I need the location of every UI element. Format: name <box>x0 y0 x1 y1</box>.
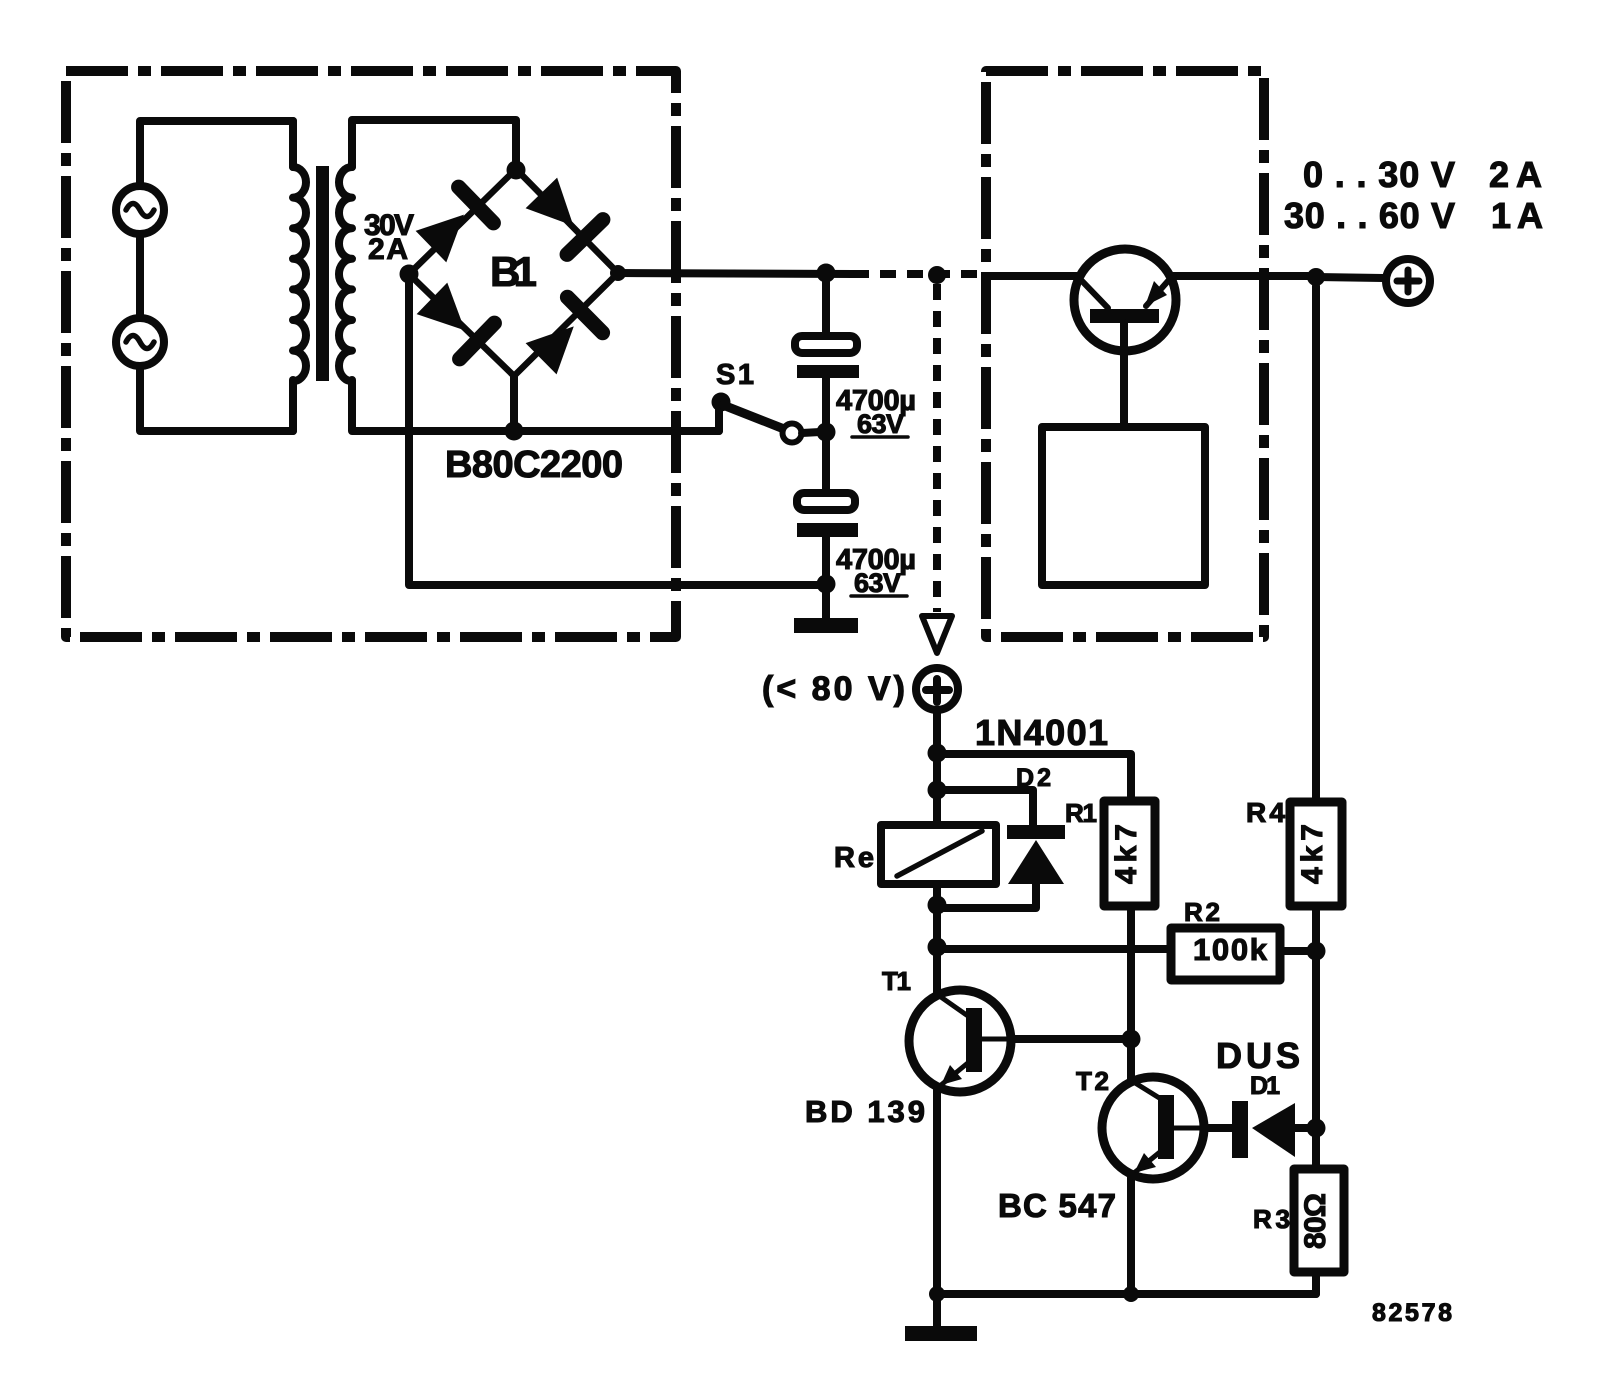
svg-text:(< 80 V): (< 80 V) <box>762 670 905 708</box>
svg-text:R3: R3 <box>1253 1204 1290 1234</box>
svg-text:4k7: 4k7 <box>1110 824 1143 884</box>
svg-text:82578: 82578 <box>1372 1299 1452 1327</box>
svg-text:80Ω: 80Ω <box>1299 1193 1332 1249</box>
svg-text:1N4001: 1N4001 <box>975 712 1108 753</box>
svg-text:R2: R2 <box>1184 897 1220 927</box>
svg-text:63V: 63V <box>857 409 904 439</box>
svg-text:R1: R1 <box>1065 798 1097 828</box>
svg-text:4k7: 4k7 <box>1296 824 1329 884</box>
svg-text:D2: D2 <box>1016 764 1051 792</box>
svg-text:D1: D1 <box>1250 1072 1280 1100</box>
svg-text:S1: S1 <box>716 359 754 391</box>
svg-text:2A: 2A <box>368 233 408 266</box>
svg-text:100k: 100k <box>1193 932 1268 967</box>
svg-text:DUS: DUS <box>1216 1035 1300 1076</box>
svg-text:Re: Re <box>834 842 874 874</box>
svg-text:1 A: 1 A <box>1491 195 1543 236</box>
svg-text:BC 547: BC 547 <box>998 1187 1116 1224</box>
svg-text:B1: B1 <box>490 248 537 295</box>
svg-text:0 . . 30 V: 0 . . 30 V <box>1303 154 1455 195</box>
svg-text:2 A: 2 A <box>1489 154 1542 195</box>
svg-text:R4: R4 <box>1246 797 1285 828</box>
svg-text:B80C2200: B80C2200 <box>445 444 623 486</box>
svg-text:T1: T1 <box>882 966 911 996</box>
svg-text:63V: 63V <box>854 568 901 598</box>
svg-text:30 . . 60 V: 30 . . 60 V <box>1284 195 1455 236</box>
